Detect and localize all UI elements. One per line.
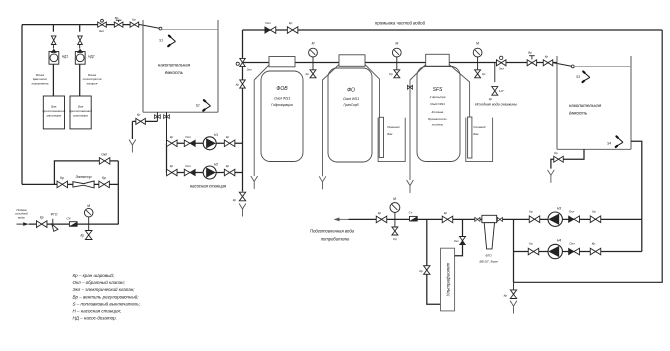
- wire filter header y62.5: [243, 62, 558, 64]
- svg-text:SFS: SFS: [433, 87, 443, 93]
- tank2 inlet drop: [553, 63, 574, 68]
- wire flush return right: [514, 30, 663, 282]
- valve Kr ejector right: [99, 176, 110, 188]
- svg-text:натрия: натрия: [87, 82, 98, 86]
- svg-text:Окл: Окл: [185, 164, 191, 168]
- svg-text:М: М: [393, 197, 396, 201]
- valve Kr H3 right: [590, 209, 601, 222]
- float switch S1: [159, 36, 175, 47]
- drain funnel tank1: [129, 140, 136, 153]
- svg-text:Кр: Кр: [132, 17, 136, 21]
- svg-text:Кр: Кр: [40, 216, 44, 220]
- legend: [73, 272, 141, 321]
- gauge M SFS: [473, 42, 482, 71]
- gauge M FOV: [309, 42, 318, 71]
- svg-text:Кр: Кр: [482, 72, 486, 76]
- valve Ekl dosing header: [98, 19, 107, 33]
- wire H2 line: [167, 172, 243, 174]
- wire SFS drain: [410, 65, 426, 181]
- svg-text:Кр: Кр: [529, 242, 533, 246]
- svg-text:Сч: Сч: [67, 217, 71, 221]
- valve Kr under gauge main: [392, 219, 398, 240]
- svg-text:Кр: Кр: [529, 209, 533, 213]
- svg-text:воды: воды: [18, 215, 26, 219]
- svg-text:приготовления: приготовления: [43, 109, 66, 113]
- svg-text:ФО: ФО: [347, 88, 355, 94]
- valve Okl ejector bypass: [99, 153, 110, 165]
- label: промывка чистой водой: [375, 21, 426, 26]
- wire riser x513: [513, 219, 515, 282]
- svg-text:Кр: Кр: [236, 83, 240, 87]
- label: накопительная ёмкость T1: [158, 63, 191, 76]
- check valve Okl H1: [184, 135, 195, 147]
- check valve Okl UV: [454, 237, 466, 245]
- svg-text:ФТО: ФТО: [485, 254, 492, 258]
- svg-text:Исходная вода скважины: Исходная вода скважины: [475, 102, 517, 106]
- svg-text:Сч: Сч: [409, 210, 413, 214]
- storage tank T1: [143, 20, 218, 112]
- wire flush line y30: [243, 29, 663, 31]
- svg-text:S4: S4: [607, 141, 611, 145]
- valve Kr drain under gauge M1: [80, 224, 92, 239]
- svg-text:Ультрафиолет: Ультрафиолет: [445, 262, 450, 296]
- svg-text:Вр – вентиль регулировочный;: Вр – вентиль регулировочный;: [73, 293, 140, 299]
- valve Kr FO sample: [389, 70, 400, 78]
- valve Kr H4 right: [590, 242, 601, 255]
- svg-text:Окл: Окл: [569, 209, 575, 213]
- storage tank T2: [557, 56, 631, 149]
- svg-text:накопительная: накопительная: [158, 63, 191, 68]
- wire H3 line: [514, 218, 642, 220]
- svg-text:Н – насосная станция;: Н – насосная станция;: [73, 309, 122, 314]
- valve Kr dosing header: [130, 17, 139, 27]
- svg-text:Н1: Н1: [214, 133, 218, 137]
- wire pump suction manifold: [166, 143, 168, 172]
- svg-text:Экл: Экл: [499, 66, 504, 70]
- gauge M1 raw line: [84, 204, 93, 224]
- check valve Okl H4: [569, 242, 580, 255]
- svg-text:насосная станция: насосная станция: [190, 184, 227, 189]
- svg-text:Кр: Кр: [378, 211, 382, 215]
- wire tank1 drain: [132, 121, 157, 139]
- svg-text:Окл: Окл: [569, 242, 575, 246]
- label: накопительная ёмкость T2: [569, 103, 602, 115]
- node raw-water-inlet arrow: [17, 222, 29, 226]
- cartridge filter FTO: [482, 215, 497, 249]
- node outlet arrow: [334, 218, 349, 222]
- svg-text:2 фильтра: 2 фильтра: [429, 95, 446, 99]
- wire tank2 outlet: [631, 141, 642, 251]
- drain funnel SFS: [407, 180, 414, 193]
- label: Бочка гипохлорита натрия: [83, 73, 102, 86]
- brine tank: [466, 117, 493, 162]
- svg-text:Кр: Кр: [137, 112, 141, 116]
- svg-text:Кр: Кр: [226, 135, 230, 139]
- svg-text:НД2: НД2: [88, 55, 95, 59]
- gauge M FO: [392, 42, 401, 71]
- svg-text:Кр: Кр: [60, 176, 64, 180]
- label: SFS 2 фильтра: [428, 87, 448, 126]
- UV unit: [441, 248, 455, 311]
- drain funnel pump riser: [239, 204, 246, 217]
- valve Kr H2 suction: [167, 164, 178, 176]
- float switch S3: [576, 72, 590, 83]
- valve Kr main1: [376, 211, 387, 223]
- svg-text:Кр: Кр: [233, 198, 237, 202]
- wire SFS brine feed: [449, 65, 469, 118]
- svg-text:1/2": 1/2": [499, 89, 505, 93]
- svg-text:Н2: Н2: [214, 162, 218, 166]
- svg-text:ВВ-20", 5мкм: ВВ-20", 5мкм: [479, 260, 497, 264]
- svg-text:Эжектор: Эжектор: [75, 175, 91, 179]
- wire tank2 drain: [551, 149, 584, 168]
- svg-text:S1: S1: [159, 39, 163, 43]
- drain funnel FO: [319, 176, 326, 189]
- svg-text:титель: титель: [432, 122, 444, 126]
- svg-text:Экл: Экл: [247, 68, 252, 72]
- svg-text:Кр – кран шаровый;: Кр – кран шаровый;: [73, 272, 115, 278]
- label: ФОВ Clack WS1: [271, 86, 293, 107]
- valve Kr main2: [442, 211, 453, 223]
- label: Солевой Бак: [473, 125, 485, 136]
- solution tank 1: [43, 96, 66, 129]
- valve Vr dosing header: [114, 16, 123, 27]
- valve Kr tank2 drain: [554, 151, 564, 162]
- svg-text:М: М: [476, 42, 479, 46]
- dosing pump ND2: [75, 49, 94, 64]
- label: насосная станция: [190, 184, 227, 189]
- svg-text:Окл: Окл: [101, 153, 107, 157]
- svg-text:Н3: Н3: [557, 206, 561, 210]
- valve tank1 left outlet: [155, 112, 161, 121]
- svg-text:ёмкость: ёмкость: [165, 70, 184, 75]
- svg-text:Кр: Кр: [305, 72, 309, 76]
- svg-text:Бак: Бак: [78, 105, 84, 109]
- svg-text:ФГО: ФГО: [51, 212, 58, 216]
- pump H4: [548, 239, 562, 259]
- wire raw-water line: [29, 223, 119, 225]
- svg-text:Кр: Кр: [80, 233, 84, 237]
- valve Kr H1 suction: [167, 135, 178, 147]
- check valve Okl H3: [569, 209, 580, 222]
- label: ФО Clack WS1: [343, 88, 359, 108]
- label: Подача исходной воды: [15, 208, 28, 220]
- svg-text:НД1: НД1: [62, 55, 69, 59]
- valve Kr UV inlet: [419, 266, 430, 275]
- svg-text:Экл: Экл: [99, 29, 104, 33]
- valve ND1 injection: [51, 36, 56, 49]
- svg-text:М: М: [395, 42, 398, 46]
- svg-text:Реагент: Реагент: [387, 125, 400, 129]
- svg-text:Вр: Вр: [528, 51, 532, 55]
- svg-text:Окл: Окл: [454, 239, 459, 243]
- wire ND2 suction: [79, 64, 81, 96]
- svg-text:Н4: Н4: [557, 239, 561, 243]
- strainer FGO: [51, 212, 58, 231]
- valve Kr riser drain: [233, 192, 246, 202]
- valve Kr FOV sample: [305, 70, 316, 78]
- svg-text:Колонна: Колонна: [432, 110, 444, 114]
- svg-text:раствора: раствора: [46, 114, 62, 118]
- svg-text:М: М: [87, 204, 90, 208]
- valve Kr riser: [236, 80, 246, 88]
- pump H3: [548, 206, 562, 226]
- svg-text:Кр: Кр: [419, 269, 423, 273]
- svg-text:потребителю: потребителю: [321, 236, 350, 241]
- wire ND1 branch: [52, 25, 54, 32]
- valve tank1 right outlet: [164, 112, 170, 143]
- svg-text:Кр: Кр: [444, 211, 448, 215]
- pump H1: [203, 133, 218, 150]
- svg-text:накопительная: накопительная: [569, 103, 602, 108]
- wire FOV drain: [254, 65, 269, 176]
- svg-text:Бак: Бак: [51, 105, 57, 109]
- svg-text:ёмкость: ёмкость: [569, 110, 588, 115]
- water meter Sch2: [409, 210, 418, 221]
- union FTO right: [497, 217, 502, 221]
- filter vessel FO: [328, 55, 372, 162]
- svg-text:Clack WS1: Clack WS1: [274, 97, 290, 101]
- valve Kr H4 left: [528, 242, 539, 255]
- valve Kr ejector left: [57, 176, 68, 188]
- water meter Sch1: [67, 217, 78, 227]
- svg-text:М: М: [312, 42, 315, 46]
- wire discharge riser: [242, 30, 244, 192]
- filter vessel SFS: [417, 54, 460, 161]
- solution tank 2: [69, 96, 92, 129]
- svg-text:Вр: Вр: [115, 16, 119, 20]
- gauge M main: [390, 197, 400, 220]
- svg-text:Подготовленная вода: Подготовленная вода: [310, 228, 355, 233]
- drain funnel FOV: [251, 176, 258, 189]
- svg-text:S – поплавковый выключатель;: S – поплавковый выключатель;: [73, 300, 141, 306]
- svg-text:Органопогло-: Органопогло-: [428, 117, 448, 121]
- svg-text:Кр: Кр: [102, 176, 106, 180]
- svg-text:Кр: Кр: [554, 151, 558, 155]
- svg-text:Экл – электрический клапан;: Экл – электрический клапан;: [73, 286, 136, 292]
- wire UV outlet: [455, 219, 463, 255]
- svg-text:Гидроаэрация: Гидроаэрация: [271, 103, 293, 107]
- wire left riser x22: [21, 25, 23, 185]
- svg-text:Окл: Окл: [185, 135, 191, 139]
- svg-text:коагулянта: коагулянта: [32, 82, 49, 86]
- valve Kr H2 discharge: [224, 164, 235, 176]
- wire FO drain: [323, 65, 340, 177]
- check valve Okl H2: [184, 164, 195, 176]
- valve Kr to tank2: [543, 55, 553, 66]
- float switch S2: [196, 100, 211, 111]
- valve Kr H1 discharge: [224, 135, 235, 147]
- svg-text:Кр: Кр: [504, 294, 508, 298]
- svg-text:Бак: Бак: [473, 132, 479, 136]
- svg-text:Кр: Кр: [289, 21, 293, 25]
- svg-text:ГранСорб: ГранСорб: [343, 103, 358, 107]
- svg-text:НД – насос-дозатор.: НД – насос-дозатор.: [73, 316, 117, 321]
- svg-text:Окл: Окл: [265, 21, 271, 25]
- filter vessel FOV: [261, 57, 303, 162]
- sampling branch 1/2: [489, 63, 505, 101]
- valve Kr H3 left: [529, 209, 540, 222]
- svg-text:Кр: Кр: [170, 164, 174, 168]
- float switch S4: [607, 136, 623, 147]
- svg-text:приготовления: приготовления: [69, 109, 92, 113]
- svg-text:Кр: Кр: [170, 135, 174, 139]
- svg-text:Кр: Кр: [592, 209, 596, 213]
- svg-text:Кр: Кр: [592, 242, 596, 246]
- svg-text:Кр: Кр: [545, 55, 549, 59]
- svg-text:S3: S3: [576, 75, 580, 79]
- label: ФТО BB-20 5мкм: [479, 254, 497, 264]
- union FTO left: [475, 217, 480, 221]
- valve Kr SFS sample: [475, 70, 486, 78]
- svg-text:Кр: Кр: [226, 164, 230, 168]
- valve Kr1 raw inlet: [36, 216, 47, 228]
- drain funnel bottom: [510, 301, 517, 314]
- wire ejector bypass: [54, 161, 118, 185]
- valve Vr to tank2: [527, 51, 537, 66]
- pump H2: [203, 162, 218, 179]
- svg-text:Бак: Бак: [387, 132, 393, 136]
- label: Реагент Бак: [387, 125, 400, 136]
- tank1 inlet drop: [140, 25, 162, 30]
- svg-text:ФОВ: ФОВ: [276, 86, 288, 92]
- wire ND1 suction: [52, 64, 54, 96]
- union SFS drain: [407, 85, 412, 89]
- dosing pump ND1: [49, 49, 68, 64]
- wire H4 line: [514, 251, 642, 253]
- reagent tank: [378, 117, 405, 161]
- svg-text:промывка чистой водой: промывка чистой водой: [375, 21, 426, 26]
- wire loop right riser x118: [117, 161, 119, 224]
- svg-text:Кр: Кр: [489, 97, 493, 101]
- svg-text:Clack WS1: Clack WS1: [343, 97, 359, 101]
- valve ND2 injection: [78, 36, 83, 49]
- wire ejector line y184: [22, 183, 119, 185]
- valve Kr flush: [287, 21, 298, 34]
- check valve Okl flush: [265, 21, 276, 34]
- valve Kr bottom drain: [504, 282, 517, 298]
- label: Исходная вода скважины: [475, 102, 517, 106]
- svg-text:Кр: Кр: [389, 72, 393, 76]
- svg-text:Окл – обратный клапан;: Окл – обратный клапан;: [73, 279, 126, 285]
- wire dosing header y24.6: [22, 24, 140, 26]
- valve Kr tank1 drain: [136, 112, 146, 124]
- svg-text:раствора: раствора: [72, 114, 88, 118]
- valve Ekl filter inlet: [236, 58, 252, 71]
- wire UV inlet: [427, 219, 441, 304]
- ejector: [73, 175, 94, 188]
- label: Бочка Цветного коагулянта: [32, 73, 49, 86]
- svg-text:Солевой: Солевой: [473, 125, 485, 129]
- svg-text:Clack WS1: Clack WS1: [430, 102, 445, 106]
- drain funnel tank2: [548, 170, 555, 183]
- label: Подготовленная вода потребителю: [310, 228, 355, 241]
- valve Ekl to tank2: [496, 56, 506, 70]
- svg-text:S2: S2: [196, 104, 200, 108]
- svg-text:Кр: Кр: [393, 237, 397, 241]
- wire ND2 branch: [79, 25, 81, 32]
- wire H1 line: [167, 142, 243, 144]
- wire main line y219: [349, 218, 514, 220]
- wire FO reagent feed: [365, 65, 380, 118]
